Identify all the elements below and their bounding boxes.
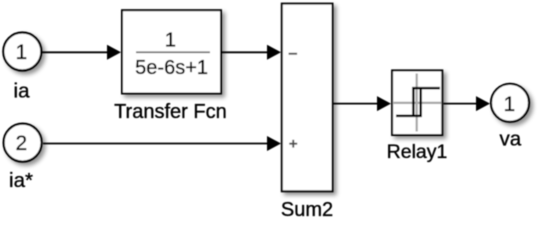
svg-text:2: 2 — [16, 132, 28, 155]
svg-text:Transfer Fcn: Transfer Fcn — [114, 101, 227, 123]
sum2 minus sign — [289, 53, 298, 55]
relay1 block — [392, 70, 442, 135]
relay icon step curve — [396, 87, 440, 117]
relay icon gray vertical axis — [416, 74, 418, 132]
transfer fcn block — [122, 10, 221, 93]
relay icon gray horizontal axis — [394, 102, 442, 104]
outport 1 circle — [491, 84, 529, 122]
svg-text:va: va — [499, 128, 521, 151]
wire from inport 1 to Transfer Fcn — [42, 45, 121, 60]
sum2 plus sign — [289, 140, 297, 148]
svg-text:Relay1: Relay1 — [387, 141, 448, 163]
inport 2 circle — [4, 124, 42, 162]
svg-text:1: 1 — [504, 93, 516, 116]
svg-text:ia: ia — [14, 79, 31, 102]
sum2 block — [282, 4, 333, 192]
wire from Transfer Fcn to Sum2 minus input — [221, 45, 282, 60]
wire from Sum2 to Relay1 — [333, 96, 391, 111]
wire from Relay1 to outport 1 — [444, 96, 491, 111]
svg-text:1: 1 — [15, 41, 27, 64]
svg-text:1: 1 — [165, 28, 176, 51]
transfer fcn fraction bar — [136, 51, 210, 53]
svg-text:Sum2: Sum2 — [281, 199, 333, 219]
wire from inport 2 to Sum2 plus input — [43, 136, 281, 151]
inport 1 circle — [3, 33, 41, 71]
svg-text:ia*: ia* — [9, 169, 33, 192]
svg-text:5e-6s+1: 5e-6s+1 — [135, 57, 208, 79]
